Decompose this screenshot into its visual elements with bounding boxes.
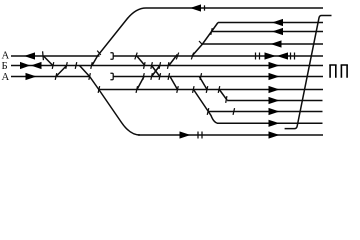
switch tick A-top x136 <box>135 53 137 60</box>
bowtie arrows on A-top <box>265 52 277 59</box>
track y111.5 <box>208 111 323 113</box>
wire trapezoid left diagonal up to A-bottom <box>137 77 144 90</box>
track A-top right segment <box>113 55 323 57</box>
double joint tick A-top left <box>255 53 257 60</box>
arrow right on y111.5 <box>269 108 280 115</box>
switch tick on ladder below track 4 <box>199 41 203 45</box>
track y89.5 <box>98 89 323 91</box>
wire diagonal A-bottom down to y89.5 <box>199 77 207 90</box>
arrow right on y100.5 <box>269 97 280 104</box>
switch tick B x76 <box>75 62 77 69</box>
big down diagonal from B to bottom loop <box>80 66 141 136</box>
arrow left on A-top <box>24 52 35 59</box>
crossover X between B and A-bottom <box>152 66 160 77</box>
wire diagonal B up to A-top x169-177 <box>169 55 177 66</box>
arrow right on bottom loop <box>180 131 191 138</box>
track 3 <box>212 31 324 33</box>
switch ticks X on B <box>151 62 153 69</box>
switch ticks X on A-bottom <box>151 73 153 80</box>
arrow right on A-bottom left <box>26 73 37 80</box>
park boundary slant line with hooks <box>285 16 332 129</box>
switch tick A-bottom x168.8 <box>168 73 170 80</box>
svg-text:А: А <box>2 71 10 83</box>
switch tick B x144.7 <box>144 62 146 69</box>
wire diagonal A-bottom up to B x56-66.5 <box>56 66 67 77</box>
wire trapezoid right diagonal down from A-bottom <box>170 77 178 90</box>
arrow right on A-bottom <box>269 73 280 80</box>
switch tick A-bottom x56 <box>55 73 57 80</box>
double joint tick bottom loop <box>197 132 199 139</box>
wire diagonal A-top down to B x137-145 <box>137 56 145 66</box>
switch tick A-top x43 <box>42 51 45 60</box>
arrow left on track 4 <box>271 40 282 47</box>
switch tick y89.5 x219 <box>218 86 220 93</box>
switch tick A-bottom x143.5 <box>143 73 145 80</box>
wire branch y89.5 down to y100.5 <box>219 90 227 101</box>
arrow left on top loop <box>190 4 201 11</box>
track y100.5 <box>227 100 322 102</box>
switch tick y89.5 x177.5 <box>177 86 179 93</box>
switch tick on y89.5 start <box>98 86 100 93</box>
track A-top left segment <box>11 55 100 57</box>
switch tick B x92 at up diagonal <box>91 62 93 69</box>
arrow right on B <box>269 62 280 69</box>
arrow left on track 2 <box>272 19 283 26</box>
switch tick B x53 <box>52 62 54 69</box>
track top loop line <box>146 7 323 9</box>
bowtie arrows on B left <box>20 62 30 69</box>
switch tick y89.5 x193.5 <box>193 86 195 93</box>
dead-end bracket A-bottom <box>110 73 113 79</box>
ladder diagonal from A-top up to track 2 <box>192 23 218 57</box>
switch tick B x66.5 <box>66 62 68 69</box>
track bottom loop <box>138 134 323 136</box>
switch tick A-top x177 <box>176 53 178 60</box>
ladder diagonal y89.5 down to y123.3 <box>194 90 219 124</box>
track y123.3 <box>217 122 323 124</box>
switch tick on A-bottom x89.6 <box>89 73 91 80</box>
joint tick on top loop <box>204 5 206 10</box>
track 4 <box>203 43 324 45</box>
switch tick A-top at ladder <box>191 53 193 60</box>
switch tick y111.5 start <box>207 108 209 115</box>
arrow right on bottom loop east <box>269 131 280 138</box>
wire big up diagonal from B to top loop <box>92 8 146 66</box>
label PP yard <box>329 64 336 66</box>
switch tick y100.5 start <box>226 96 227 103</box>
track A-bottom right segment <box>113 76 323 78</box>
wire diagonal A-top down to B x43-53 <box>44 56 53 66</box>
track B full <box>11 65 323 67</box>
dead-end bracket A-top <box>110 53 113 59</box>
switch tick B x168.4 <box>167 62 169 69</box>
switch tick y89.5 x136.8 <box>136 86 138 93</box>
switch tick on ladder at track 3 <box>211 28 213 35</box>
switch tick y89.5 x207 <box>206 86 208 93</box>
joint tick y111.5 x233.7 <box>233 108 235 115</box>
arrow right on y89.5 <box>269 86 280 93</box>
track 2 <box>218 22 323 24</box>
track A-bottom left segment <box>11 76 90 78</box>
switch tick A-bottom x200.8 <box>200 73 202 80</box>
arrow right on y123.3 <box>269 120 280 127</box>
double joint tick A-top right <box>290 53 292 60</box>
arrow left on track 3 <box>272 28 283 35</box>
switch tick on up diagonal above A-top <box>97 51 101 55</box>
